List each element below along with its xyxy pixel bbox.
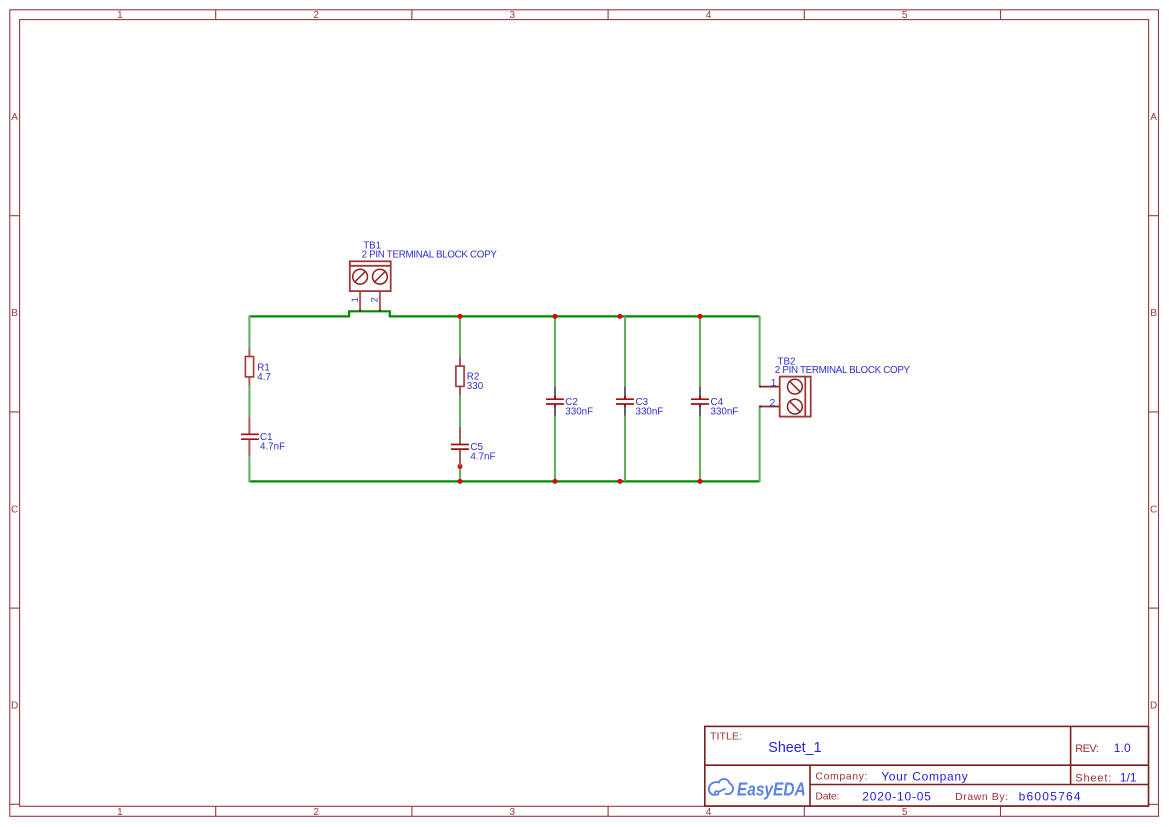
- svg-text:2: 2: [313, 807, 319, 818]
- svg-text:330: 330: [467, 381, 484, 392]
- svg-text:4.7: 4.7: [257, 372, 271, 383]
- svg-text:Sheet:: Sheet:: [1075, 772, 1111, 784]
- svg-text:REV:: REV:: [1075, 743, 1099, 755]
- svg-text:C: C: [1150, 504, 1157, 515]
- svg-text:2: 2: [313, 10, 319, 21]
- svg-text:1: 1: [771, 377, 777, 389]
- svg-text:330nF: 330nF: [711, 407, 739, 418]
- svg-text:1: 1: [350, 297, 360, 302]
- svg-text:1/1: 1/1: [1120, 770, 1137, 784]
- svg-text:A: A: [11, 112, 18, 123]
- svg-text:Sheet_1: Sheet_1: [768, 740, 821, 756]
- svg-text:4: 4: [706, 807, 712, 818]
- svg-text:330nF: 330nF: [636, 407, 664, 418]
- svg-text:4.7nF: 4.7nF: [260, 442, 285, 453]
- svg-text:D: D: [1150, 701, 1157, 712]
- svg-text:Drawn By:: Drawn By:: [955, 791, 1008, 803]
- svg-text:D: D: [11, 701, 18, 712]
- svg-text:1: 1: [117, 10, 123, 21]
- svg-text:EasyEDA: EasyEDA: [737, 779, 806, 799]
- svg-text:5: 5: [902, 807, 908, 818]
- svg-text:2 PIN TERMINAL BLOCK COPY: 2 PIN TERMINAL BLOCK COPY: [362, 250, 498, 261]
- svg-text:1.0: 1.0: [1114, 741, 1131, 755]
- svg-text:TITLE:: TITLE:: [710, 731, 742, 743]
- svg-text:Company:: Company:: [815, 771, 867, 783]
- svg-text:2: 2: [370, 297, 380, 302]
- svg-text:2: 2: [770, 397, 776, 409]
- svg-text:C: C: [11, 504, 18, 515]
- svg-text:1: 1: [117, 807, 123, 818]
- svg-text:3: 3: [510, 10, 516, 21]
- svg-text:2 PIN TERMINAL BLOCK COPY: 2 PIN TERMINAL BLOCK COPY: [775, 365, 911, 376]
- svg-text:4: 4: [706, 10, 712, 21]
- svg-text:2020-10-05: 2020-10-05: [862, 789, 931, 803]
- svg-text:Your Company: Your Company: [881, 769, 968, 783]
- svg-text:3: 3: [510, 807, 516, 818]
- svg-text:5: 5: [902, 10, 908, 21]
- svg-text:B: B: [1150, 308, 1157, 319]
- svg-text:B: B: [11, 308, 18, 319]
- svg-text:4.7nF: 4.7nF: [470, 452, 495, 463]
- svg-text:330nF: 330nF: [565, 407, 593, 418]
- svg-text:A: A: [1150, 112, 1157, 123]
- svg-text:Date:: Date:: [815, 790, 839, 802]
- svg-text:b6005764: b6005764: [1019, 789, 1081, 803]
